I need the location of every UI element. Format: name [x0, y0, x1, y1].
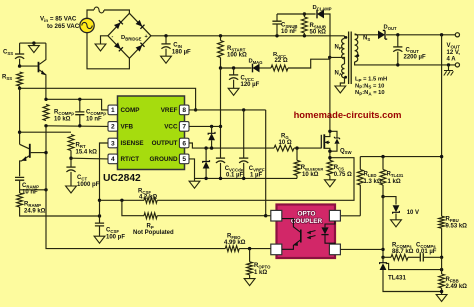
opto LED	[321, 221, 335, 244]
svg-text:5: 5	[182, 156, 186, 163]
resistor RSS	[2, 72, 23, 88]
wire pin6 output	[189, 143, 274, 148]
svg-text:12 V,: 12 V,	[447, 50, 461, 56]
resistor RFBU	[439, 216, 467, 257]
zener DZ2	[203, 148, 210, 178]
ground CIN	[161, 56, 172, 63]
wire pin7 vcc	[189, 125, 221, 127]
resistor RCOMPp	[43, 104, 74, 122]
node drain	[328, 130, 331, 133]
label OPTO COUPLER	[291, 211, 323, 225]
pin 3 ISENSE	[108, 138, 144, 148]
wire vref-softstart	[20, 88, 196, 110]
fuse F1	[94, 7, 104, 13]
svg-text:VFB: VFB	[121, 124, 134, 131]
node vfb rail ccomp	[78, 124, 81, 127]
svg-text:100 kΩ: 100 kΩ	[227, 53, 247, 59]
svg-text:CVCC: CVCC	[241, 76, 254, 83]
svg-text:0.75 Ω: 0.75 Ω	[334, 172, 352, 178]
wire vref rail	[189, 109, 266, 111]
ground soft-start	[29, 43, 40, 53]
svg-text:4.99 kΩ: 4.99 kΩ	[224, 240, 246, 246]
wire AC bottom to bridge bottom	[87, 33, 129, 69]
wire rss column down	[19, 88, 21, 144]
svg-text:10 nF: 10 nF	[86, 117, 102, 123]
resistor RVCC	[260, 52, 288, 71]
svg-text:CCOMPp: CCOMPp	[86, 110, 106, 117]
wire clamp top	[277, 13, 316, 15]
node ss ground	[32, 41, 35, 44]
resistor RSTART	[218, 36, 247, 68]
svg-text:LP = 1.5 mH: LP = 1.5 mH	[355, 77, 387, 83]
capacitor CIN	[161, 36, 191, 56]
svg-text:180 µF: 180 µF	[172, 50, 191, 56]
resistor RTL431	[380, 157, 404, 197]
label VOUT	[447, 43, 461, 63]
svg-text:2: 2	[111, 124, 115, 131]
resistor RP not populated	[122, 200, 266, 236]
node rcsf split	[120, 199, 123, 202]
svg-text:RSS: RSS	[2, 75, 12, 82]
svg-text:120 µF: 120 µF	[241, 82, 260, 88]
node RSTART bottom	[219, 66, 222, 69]
svg-text:COUPLER: COUPLER	[291, 218, 323, 225]
node ropto	[248, 247, 251, 250]
node source	[328, 150, 331, 153]
svg-text:2.49 kΩ: 2.49 kΩ	[446, 284, 468, 290]
ground CCSF	[94, 236, 105, 243]
winding NS	[355, 34, 371, 62]
ground at bridge left	[95, 36, 108, 51]
capacitor CCT	[66, 158, 99, 188]
wire RTL431 to TL431	[382, 197, 384, 258]
svg-text:10 kΩ: 10 kΩ	[302, 172, 319, 178]
transistor Q1 soft-start	[20, 43, 46, 99]
ground fb	[436, 295, 447, 302]
node clamp top left	[303, 12, 306, 15]
node TL431 anode	[440, 290, 443, 293]
svg-text:+: +	[145, 34, 148, 40]
capacitor CVCC	[229, 68, 260, 88]
node gnd zener	[204, 177, 207, 180]
svg-text:2200 µF: 2200 µF	[404, 55, 426, 61]
svg-text:RLED: RLED	[364, 172, 377, 179]
svg-text:15.4 kΩ: 15.4 kΩ	[76, 150, 98, 156]
node CVCC	[232, 66, 235, 69]
svg-text:RRT: RRT	[76, 143, 86, 150]
capacitor CCSF	[95, 223, 125, 240]
resistor RFBO	[224, 233, 271, 251]
opto pin BL	[271, 244, 282, 255]
transistor Q2 ramp buffer	[20, 144, 46, 176]
svg-text:homemade-circuits.com: homemade-circuits.com	[294, 109, 402, 120]
zener DZ1	[208, 126, 215, 148]
svg-text:TL431: TL431	[388, 275, 406, 282]
wire DC bus	[151, 35, 345, 37]
ground output earth	[444, 65, 454, 76]
node ramp join	[98, 214, 101, 217]
svg-text:Not Populated: Not Populated	[133, 230, 174, 236]
svg-text:RCS: RCS	[334, 165, 344, 172]
diode DOUT	[378, 25, 397, 40]
svg-text:NP: NP	[335, 45, 342, 52]
svg-text:ISENSE: ISENSE	[121, 140, 144, 147]
winding NA	[335, 59, 348, 79]
ground CCT	[66, 186, 77, 193]
zener D10V	[383, 197, 419, 220]
capacitor CVREF	[239, 110, 265, 179]
wire RVCC to primary node	[288, 59, 330, 68]
node zener 10V	[381, 195, 384, 198]
node bus-CSNUB	[275, 34, 278, 37]
svg-text:UC2842: UC2842	[103, 173, 141, 184]
transformer core	[349, 32, 352, 85]
svg-text:24.9 kΩ: 24.9 kΩ	[24, 208, 46, 214]
node isense	[98, 199, 101, 202]
svg-text:RG: RG	[281, 133, 289, 140]
node opto cathode	[381, 248, 384, 251]
svg-text:GROUND: GROUND	[150, 156, 178, 163]
svg-text:-: -	[112, 34, 114, 40]
node comp rail ccomp	[78, 98, 81, 101]
ground zener 10V	[391, 220, 402, 227]
svg-text:100 pF: 100 pF	[106, 235, 125, 241]
svg-text:OUTPUT: OUTPUT	[152, 140, 178, 147]
node COUT top	[396, 33, 399, 36]
pin 7 VCC	[164, 122, 189, 132]
pin 5 GROUND	[150, 154, 190, 164]
svg-text:1: 1	[111, 107, 115, 114]
resistor RRAMP	[17, 193, 100, 216]
node out ground	[447, 63, 450, 66]
opto light arrows	[307, 231, 316, 240]
wire AC top to fuse	[87, 10, 94, 18]
wire RLED to opto	[340, 215, 360, 217]
svg-text:4.2 kΩ: 4.2 kΩ	[139, 195, 157, 201]
svg-text:1000 pF: 1000 pF	[77, 182, 100, 188]
capacitor CSNUB	[272, 14, 297, 36]
wire +12V sense down	[441, 35, 443, 216]
svg-text:3: 3	[111, 140, 115, 147]
node bus-RSTART	[219, 34, 222, 37]
svg-text:COUT: COUT	[406, 48, 420, 55]
wire DOUT to +out	[386, 34, 455, 36]
resistor RCS	[327, 160, 352, 180]
resistor RCOMPs capacitor CCOMPs	[383, 242, 442, 261]
label transformer data	[355, 77, 387, 97]
terminal -VOUT	[455, 63, 459, 67]
opto pin TL	[271, 210, 282, 221]
svg-text:RFBU: RFBU	[446, 217, 459, 224]
svg-text:RCOMPp: RCOMPp	[54, 110, 74, 117]
wire aux rail	[221, 67, 252, 69]
wire ground rail	[195, 177, 298, 179]
wire sense line to source	[157, 158, 354, 201]
ground NA	[335, 78, 346, 93]
wire drain	[329, 57, 331, 131]
node vcc pin7	[219, 125, 222, 128]
svg-text:8: 8	[182, 107, 186, 114]
node comp-s right	[440, 256, 443, 259]
svg-text:NS: NS	[363, 36, 370, 43]
diode DMAG	[249, 58, 263, 72]
node comp rail left	[44, 98, 47, 101]
svg-text:88.7 kΩ: 88.7 kΩ	[392, 249, 414, 255]
wire vfb column down	[46, 126, 225, 249]
opto pin BR	[329, 244, 340, 255]
wire vref to opto	[265, 110, 267, 216]
wire isense sense line	[100, 199, 145, 201]
node rss bottom	[18, 87, 21, 90]
wire vcc column	[220, 68, 222, 158]
pin 2 VFB	[108, 122, 134, 132]
svg-text:QSW: QSW	[340, 148, 353, 155]
winding NP	[335, 36, 348, 59]
svg-text:10 nF: 10 nF	[281, 29, 297, 35]
wire secondary return	[355, 62, 456, 65]
wire comp rail	[46, 99, 108, 110]
resistor RFBB	[439, 257, 467, 294]
node gnd cvccde	[219, 177, 222, 180]
svg-text:6: 6	[182, 140, 186, 147]
node led rail right	[440, 155, 443, 158]
node rtl431 top	[381, 155, 384, 158]
label Vin	[40, 16, 80, 31]
wire fuse to bridge top	[104, 10, 129, 13]
optocoupler U3 body	[277, 205, 336, 259]
svg-text:OPTO: OPTO	[298, 211, 316, 218]
svg-text:10 V: 10 V	[407, 210, 419, 216]
svg-text:CIN: CIN	[173, 43, 182, 50]
svg-text:4 A: 4 A	[447, 57, 457, 63]
node opto collector feed	[264, 214, 267, 217]
ground RCS	[325, 180, 336, 187]
IC UC2842 body	[118, 96, 185, 170]
node drain top	[328, 56, 331, 59]
node vfb col cramp	[44, 188, 47, 191]
pin 4 RT/CT	[108, 154, 139, 164]
label homemade-circuits.com	[294, 109, 402, 120]
wire NP bottom to drain node	[330, 57, 345, 59]
node fb divider	[440, 268, 443, 271]
node gnd cvref	[242, 177, 245, 180]
svg-text:4: 4	[111, 156, 115, 163]
node zener out	[204, 146, 207, 149]
node q2 collector	[18, 131, 21, 134]
capacitor CVCCde	[216, 158, 244, 179]
node vfb rail left	[44, 124, 47, 127]
diode DCLAMP	[313, 5, 332, 18]
svg-text:RSNUB: RSNUB	[310, 23, 327, 30]
svg-text:1 kΩ: 1 kΩ	[254, 270, 267, 276]
resistor ROPTO	[247, 249, 271, 279]
wire opto tl pin	[266, 215, 271, 217]
node bus-CIN	[164, 34, 167, 37]
svg-text:9.53 kΩ: 9.53 kΩ	[446, 224, 468, 230]
svg-text:1 kΩ: 1 kΩ	[388, 179, 401, 185]
ground ROPTO	[244, 279, 255, 286]
node vfb col base	[44, 151, 47, 154]
resistor RCSF	[138, 188, 157, 203]
ground CVCC	[228, 88, 239, 95]
svg-text:CSNUB: CSNUB	[281, 23, 298, 30]
pin 6 OUTPUT	[152, 138, 189, 148]
wire source down	[329, 151, 331, 160]
capacitor CRAMP	[15, 177, 39, 195]
transistor QSW mosfet	[321, 131, 352, 155]
pin 1 COMP	[108, 105, 139, 115]
wire pin3 isense down	[100, 143, 109, 223]
svg-text:0.01 µF: 0.01 µF	[416, 249, 437, 255]
node comp-s left	[381, 256, 384, 259]
AC source V1	[80, 18, 94, 32]
node rbleeder top	[295, 146, 298, 149]
wire TL431 ref	[386, 263, 441, 269]
wire NS top to DOUT	[355, 34, 378, 36]
wire vfb rail	[46, 125, 108, 128]
svg-text:1 µF: 1 µF	[250, 173, 262, 179]
node vref branch	[194, 108, 197, 111]
wire opto BR to TL431	[340, 248, 383, 250]
svg-text:NP:NA = 10: NP:NA = 10	[355, 90, 385, 96]
svg-text:CCT: CCT	[77, 175, 87, 182]
svg-text:RT/CT: RT/CT	[121, 156, 140, 163]
svg-text:RRAMP: RRAMP	[24, 201, 41, 208]
opto pin TR	[329, 210, 340, 221]
resistor RSNUB	[302, 14, 327, 36]
node zener vcc out	[210, 146, 213, 149]
ground ic	[189, 181, 200, 188]
node rt-ct	[69, 157, 72, 160]
bridge rectifier DBRIDGE	[108, 13, 151, 58]
node COUT bottom	[396, 63, 399, 66]
wire pin4 rtct	[71, 157, 108, 160]
node bus-RSNUB	[303, 34, 306, 37]
svg-text:COMP: COMP	[121, 107, 140, 114]
wire clamp to drain node	[324, 14, 330, 57]
opto phototransistor	[282, 219, 301, 250]
svg-text:CCSF: CCSF	[106, 228, 119, 235]
resistor RG	[274, 133, 321, 151]
wire pin5 ground	[189, 159, 195, 181]
svg-text:CSS: CSS	[3, 50, 13, 57]
resistor RRT	[68, 135, 97, 159]
node source sense	[328, 156, 331, 159]
label UC2842	[103, 173, 141, 184]
wire cramp node	[20, 189, 46, 191]
wire soft-start top	[20, 42, 46, 44]
svg-text:0.1 µF: 0.1 µF	[226, 173, 243, 179]
node FBU top	[440, 33, 443, 36]
resistor RLED	[357, 157, 381, 216]
pin 8 VREF	[161, 105, 189, 115]
svg-text:VOUT: VOUT	[447, 43, 461, 49]
svg-text:NA: NA	[335, 71, 342, 78]
svg-text:7: 7	[182, 124, 186, 131]
node zener vcc	[210, 125, 213, 128]
capacitor CCOMPp	[75, 99, 106, 126]
wire rt top link	[20, 131, 71, 133]
svg-text:DCLAMP: DCLAMP	[313, 5, 332, 12]
svg-text:RFBB: RFBB	[446, 277, 459, 284]
svg-text:22 Ω: 22 Ω	[275, 58, 288, 64]
terminal +VOUT	[455, 33, 459, 37]
svg-text:NP:NS = 10: NP:NS = 10	[355, 83, 384, 89]
svg-text:ROPTO: ROPTO	[254, 263, 271, 270]
node vref cvref	[242, 108, 245, 111]
svg-text:to 265 VAC: to 265 VAC	[47, 23, 80, 30]
svg-text:10 Ω: 10 Ω	[279, 140, 292, 146]
TL431 U2	[380, 257, 442, 291]
svg-text:10 kΩ: 10 kΩ	[54, 117, 71, 123]
svg-text:VREF: VREF	[161, 107, 178, 114]
svg-text:VCC: VCC	[164, 124, 178, 131]
svg-text:DOUT: DOUT	[384, 25, 397, 32]
resistor RBLEEDER	[294, 148, 323, 178]
svg-text:RTL431: RTL431	[387, 172, 404, 179]
wire led rail	[360, 156, 441, 158]
svg-text:50 kΩ: 50 kΩ	[310, 30, 327, 36]
capacitor CSS	[3, 43, 24, 66]
capacitor COUT	[393, 35, 426, 65]
svg-text:DMAG: DMAG	[249, 58, 263, 65]
node css-rss	[18, 64, 21, 67]
svg-text:DBRIDGE: DBRIDGE	[121, 35, 142, 42]
